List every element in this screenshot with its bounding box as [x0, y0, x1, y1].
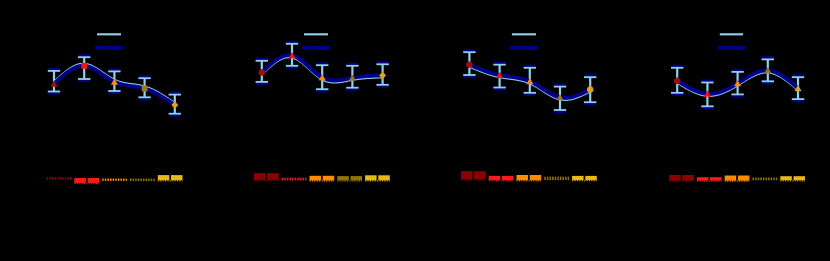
error bar panel2 point3	[316, 63, 328, 91]
tick label panel1 cat4	[130, 178, 155, 181]
marker panel1 point1	[51, 81, 58, 87]
error bar panel4 point3	[731, 70, 743, 96]
marker panel3 point2	[496, 72, 503, 78]
skyblue curve panel2	[262, 57, 383, 82]
legend navy line panel1	[97, 46, 121, 50]
error bar panel1 point5	[169, 93, 181, 116]
navy curve panel3	[469, 65, 590, 98]
navy curve panel2	[262, 55, 383, 80]
marker panel3 point1	[466, 61, 473, 68]
error bar panel2 point1	[256, 59, 268, 84]
marker panel1 point2	[81, 63, 87, 69]
marker panel4 point1	[674, 78, 681, 85]
error bar panel2 point5	[376, 62, 388, 86]
marker panel3 point3	[526, 78, 533, 84]
panel 1	[47, 34, 183, 183]
marker panel1 point4	[142, 86, 148, 92]
tick label panel4 cat2	[697, 177, 722, 181]
tick label panel3 cat2	[489, 176, 514, 181]
marker panel3 point5	[587, 86, 594, 93]
tick label panel4 cat4	[753, 178, 778, 181]
marker panel1 point5	[171, 101, 178, 109]
navy curve panel4	[677, 70, 798, 94]
error bar panel4 point2	[701, 81, 713, 109]
marker panel4 point5	[795, 85, 802, 91]
tick label panel1 cat3	[102, 178, 127, 180]
legend navy line panel3	[512, 46, 536, 50]
skyblue curve panel1	[54, 64, 175, 103]
marker panel4 point4	[764, 67, 771, 73]
error bar panel1 point4	[138, 76, 150, 99]
error bar panel3 point2	[493, 63, 505, 90]
error bar panel1 point2	[78, 55, 90, 81]
error bar panel2 point4	[346, 64, 358, 90]
tick label panel3 cat4	[544, 177, 569, 181]
legend skyblue line panel3	[512, 33, 536, 35]
tick label panel3 cat3	[517, 175, 542, 181]
marker panel4 point2	[704, 91, 711, 97]
skyblue curve panel4	[677, 73, 798, 97]
tick label panel1 cat5	[158, 175, 183, 181]
legend navy line panel2	[304, 46, 328, 50]
marker panel2 point5	[379, 72, 386, 80]
tick label panel4 cat5	[780, 176, 805, 181]
error bar panel4 point1	[671, 66, 683, 95]
error bar panel4 point5	[792, 75, 804, 101]
tick label panel2 cat5	[365, 175, 390, 181]
tick label panel2 cat1	[254, 173, 279, 180]
legend skyblue line panel2	[304, 33, 328, 35]
marker panel2 point3	[319, 74, 326, 80]
marker panel3 point4	[557, 94, 564, 100]
error bar panel4 point4	[762, 58, 774, 84]
tick label panel3 cat5	[572, 176, 597, 181]
error bar panel3 point5	[584, 75, 596, 104]
tick label panel4 cat3	[725, 176, 750, 182]
tick label panel2 cat3	[310, 176, 335, 181]
navy curve panel1	[54, 66, 175, 105]
tick label panel4 cat1	[669, 175, 694, 181]
skyblue curve panel3	[469, 67, 590, 100]
error bar panel3 point4	[554, 85, 566, 112]
error bar panel2 point2	[286, 42, 298, 68]
tick label panel2 cat4	[337, 176, 362, 181]
marker panel2 point2	[289, 52, 296, 58]
panel 3	[461, 34, 597, 181]
tick label panel1 cat2	[74, 178, 99, 184]
marker panel2 point1	[259, 69, 266, 76]
legend navy line panel4	[720, 46, 743, 50]
tick label panel1 cat1	[47, 177, 72, 180]
marker panel1 point3	[111, 79, 118, 85]
panel 2	[254, 34, 390, 181]
marker panel2 point4	[349, 75, 356, 81]
legend skyblue line panel1	[97, 33, 121, 35]
tick label panel2 cat2	[282, 178, 307, 181]
error bar panel1 point1	[48, 69, 60, 93]
error bar panel3 point3	[524, 66, 536, 95]
panel 4	[669, 34, 805, 181]
tick label panel3 cat1	[461, 171, 486, 180]
error bar panel3 point1	[463, 50, 475, 77]
marker panel4 point3	[734, 80, 741, 86]
legend skyblue line panel4	[720, 33, 743, 35]
error bar panel1 point3	[108, 70, 120, 93]
